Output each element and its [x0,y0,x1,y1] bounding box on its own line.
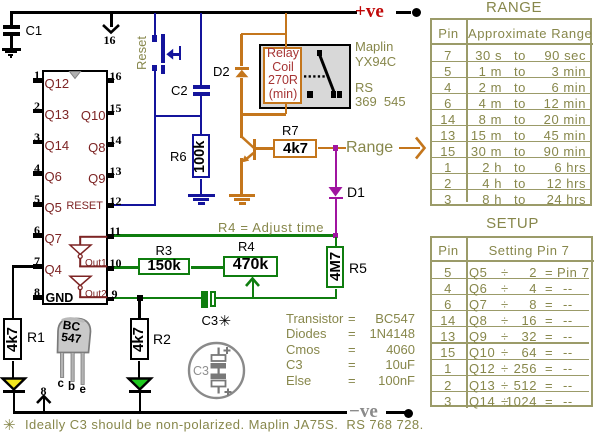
ground (C1) [2,48,21,51]
relay contact [317,50,323,56]
wire node to C2/R6 [154,115,203,118]
wire rail to +ve terminal [396,11,411,14]
pin 16 supply arrow [110,13,113,27]
diode D2 label [213,64,230,79]
pin 8 gnd arrow [41,384,47,399]
node pin9/R2 junction [137,295,143,301]
table RANGE [432,0,596,16]
label R4 adjust [218,220,324,235]
diode D1 [335,150,338,187]
label Maplin YX94C [355,40,396,69]
capacitor C1 [10,12,13,25]
wire R2 to pin9 [138,298,141,318]
resistor R7 [256,147,274,150]
component value notes [286,311,343,389]
IC U1 4060 [42,70,108,305]
wire top +ve rail [10,11,357,14]
IC pin numbers left [27,68,40,83]
resistor R5 [335,237,338,246]
wire pin 9 [110,297,201,300]
wire pin 7 to R1 [12,265,34,268]
resistor R3 [138,258,191,276]
IC pins left stubs [33,78,42,83]
IC labels [45,76,70,91]
wire reset to node [154,70,157,205]
resistor R2 [130,318,149,360]
wire pin12 [110,204,156,207]
potentiometer R4 [223,256,278,277]
node +ve label [355,1,399,23]
ground (R6) [188,194,215,197]
node +ve terminal dot [412,8,421,17]
relay box [259,44,352,110]
push-button Reset [154,13,157,37]
relay coil box [263,47,302,104]
ground (Q1) [229,194,256,197]
wire Range arrow [399,147,420,150]
resistor R6 [200,116,203,135]
transistor Q1 [240,114,243,138]
wire pin 10 [110,266,139,269]
wire -ve rail [13,411,347,414]
wire relay branch top [241,33,286,36]
wire stub after junction [338,147,346,150]
wire coil stubs [285,44,288,48]
wire relay coil top [285,13,288,45]
wire relay bottom branch [241,113,286,116]
IC pin numbers right [110,69,122,84]
node D1/R5/pin11 junction [333,233,339,239]
wire pin 11 [110,234,333,237]
node -ve label [349,401,378,423]
label RS 369 545 [355,81,406,109]
label Range [346,139,393,157]
bottom note [3,416,16,434]
table SETUP [430,215,595,232]
IC pins right stubs [106,78,114,83]
diode D2 [240,34,243,66]
capacitor C2 [200,13,203,85]
capacitor C3 [201,291,208,308]
resistor R1 [3,318,22,360]
node Range junction [333,145,339,151]
